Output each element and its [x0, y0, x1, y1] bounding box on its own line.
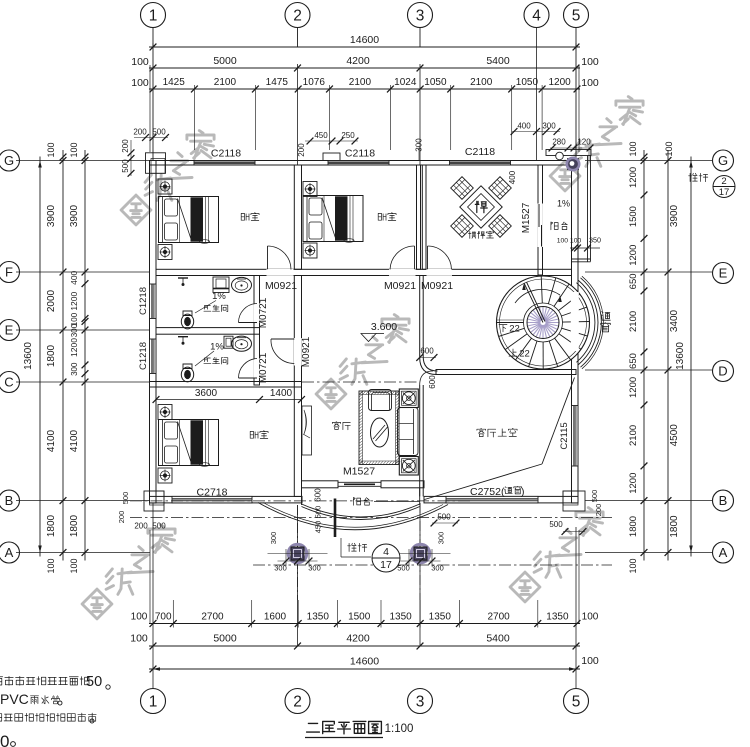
svg-text:500: 500 — [314, 506, 323, 519]
svg-text:100: 100 — [46, 558, 56, 573]
svg-text:1200: 1200 — [628, 167, 639, 188]
svg-text:400: 400 — [508, 170, 517, 184]
svg-text:100: 100 — [581, 655, 599, 667]
svg-text:17: 17 — [719, 187, 730, 198]
bedroom1 label — [241, 213, 249, 220]
svg-text:500: 500 — [549, 520, 563, 529]
svg-text:): ) — [521, 486, 525, 498]
svg-text:C: C — [4, 375, 13, 390]
bathroom2 fixtures — [224, 336, 233, 348]
svg-text:650: 650 — [628, 353, 639, 369]
svg-text:2: 2 — [293, 694, 302, 711]
svg-text:1600: 1600 — [264, 612, 287, 623]
svg-text:C1218: C1218 — [138, 342, 149, 370]
window C2118 chess room — [450, 161, 511, 166]
svg-text:1200: 1200 — [548, 77, 571, 88]
svg-text:1050: 1050 — [516, 77, 539, 88]
right dimension columns — [585, 160, 712, 162]
svg-text:3900: 3900 — [69, 204, 80, 227]
svg-text:1475: 1475 — [266, 77, 289, 88]
svg-text:22: 22 — [519, 349, 530, 360]
svg-text:14600: 14600 — [350, 34, 379, 46]
svg-text:500: 500 — [437, 513, 451, 522]
svg-text:C2718: C2718 — [197, 487, 228, 499]
outer wall left — [150, 161, 157, 504]
top-center chimney bump — [323, 153, 340, 161]
svg-text:4200: 4200 — [346, 55, 370, 67]
svg-text:600: 600 — [314, 488, 323, 502]
top-left corner parapet detail — [146, 153, 166, 174]
svg-text:400: 400 — [517, 122, 531, 131]
living room end tables (square with circle cross) — [399, 389, 418, 408]
svg-text:C2752(: C2752( — [470, 486, 505, 498]
svg-text:100: 100 — [131, 77, 149, 89]
svg-text:1350: 1350 — [546, 612, 569, 623]
svg-text:300: 300 — [431, 564, 444, 573]
interior wall axis F horizontal — [156, 269, 572, 275]
svg-text:500: 500 — [152, 522, 166, 531]
window C2718 bedroom3 — [172, 496, 252, 503]
door M0921 bedroom2 — [389, 269, 416, 276]
svg-text:4: 4 — [532, 8, 541, 25]
bedroom3 label — [250, 431, 258, 438]
svg-text:E: E — [719, 266, 728, 281]
svg-text:C2115: C2115 — [559, 422, 570, 449]
svg-text:3: 3 — [416, 694, 425, 711]
bedroom2 bed with nightstands — [303, 182, 317, 197]
right axis circles G E D B A — [713, 150, 734, 171]
bedroom2 east wall / chess west wall — [417, 165, 421, 269]
svg-text:5000: 5000 — [213, 633, 237, 645]
centerline vertical axis2 below — [297, 505, 299, 600]
svg-text:1%: 1% — [212, 291, 226, 302]
svg-text:PVC: PVC — [0, 691, 29, 707]
top-right balcony parapet — [546, 150, 591, 156]
svg-text:22: 22 — [509, 324, 520, 335]
top axis circles — [141, 3, 166, 28]
svg-text:1350: 1350 — [429, 612, 452, 623]
svg-text:G: G — [4, 153, 14, 168]
bedroom3 north wall — [150, 382, 302, 388]
svg-text:1500: 1500 — [628, 206, 639, 227]
window C1218 bathroom1 — [150, 284, 157, 319]
svg-text:1350: 1350 — [389, 612, 412, 623]
living room label — [332, 422, 340, 430]
svg-text:100: 100 — [69, 142, 79, 157]
svg-text:1500: 1500 — [348, 612, 371, 623]
centerline axis C through living room — [302, 381, 419, 383]
svg-text:200: 200 — [117, 511, 126, 524]
outer wall top (axis G) — [150, 161, 579, 166]
svg-text:A: A — [5, 545, 14, 560]
svg-text:1200: 1200 — [69, 291, 79, 310]
bottom-right corner step — [563, 491, 585, 511]
svg-text:500: 500 — [397, 564, 410, 573]
living void label — [477, 428, 486, 436]
svg-text:300: 300 — [274, 564, 287, 573]
outer wall bottom right portion — [424, 496, 578, 503]
stair south wall (axis D) — [436, 370, 576, 375]
door M1527 chess to balcony (sliding) — [538, 204, 543, 248]
svg-text:1%: 1% — [210, 342, 224, 353]
svg-text:M1527: M1527 — [343, 466, 375, 478]
svg-text:5400: 5400 — [486, 55, 510, 67]
svg-text:14600: 14600 — [350, 656, 379, 668]
svg-text:G: G — [718, 153, 728, 168]
svg-text:2100: 2100 — [628, 311, 639, 332]
svg-text:3900: 3900 — [669, 204, 680, 227]
svg-text:1: 1 — [149, 8, 158, 25]
svg-text:0: 0 — [0, 732, 9, 747]
window C1218 bathroom2 — [150, 339, 157, 374]
svg-text:A: A — [719, 545, 728, 560]
door M0921 bedroom1 (opening in F wall) — [267, 269, 294, 276]
svg-text:M0721: M0721 — [258, 297, 269, 328]
svg-text:C1218: C1218 — [138, 287, 149, 315]
svg-text:100: 100 — [628, 141, 638, 156]
svg-text:3400: 3400 — [669, 309, 680, 332]
svg-text:1800: 1800 — [628, 516, 639, 537]
outer wall right — [572, 161, 579, 504]
svg-text:1024: 1024 — [394, 77, 417, 88]
svg-text:2100: 2100 — [349, 77, 372, 88]
svg-text:2100: 2100 — [470, 77, 493, 88]
svg-text:3: 3 — [416, 8, 425, 25]
svg-text:4100: 4100 — [46, 429, 57, 452]
svg-text:200: 200 — [121, 139, 130, 153]
svg-text:450: 450 — [314, 521, 323, 534]
svg-text:5: 5 — [572, 694, 581, 711]
svg-text:100: 100 — [581, 77, 599, 89]
svg-text:600: 600 — [428, 375, 437, 389]
svg-text:1076: 1076 — [303, 77, 326, 88]
svg-text:C2118: C2118 — [345, 148, 375, 160]
svg-text:2700: 2700 — [487, 612, 510, 623]
centerline lower at posts — [253, 564, 612, 566]
svg-text:5000: 5000 — [213, 55, 237, 67]
door M1527 living to south balcony (threshold) — [339, 481, 381, 483]
svg-text:100: 100 — [131, 612, 148, 623]
svg-text:D: D — [718, 364, 727, 379]
south balcony wall with M1527 opening — [302, 481, 339, 488]
svg-text:1350: 1350 — [307, 612, 330, 623]
void west edge with curved corner — [420, 276, 437, 375]
svg-text:500: 500 — [121, 492, 130, 505]
svg-text:1400: 1400 — [270, 388, 293, 399]
railing label and detail bubble 2/17 top right — [689, 173, 698, 181]
bedroom2 label — [378, 213, 386, 220]
bedroom3 interior dim 3600/1400 — [156, 399, 302, 401]
svg-text:100: 100 — [664, 141, 674, 156]
south balcony label with leader — [353, 498, 360, 506]
centerline axis B through balcony region — [130, 500, 470, 502]
svg-text:3600: 3600 — [195, 388, 218, 399]
svg-text:2100: 2100 — [628, 425, 639, 446]
door M0921 corridor (vertical wall) — [294, 338, 302, 366]
svg-text:B: B — [719, 493, 728, 508]
svg-text:M0921: M0921 — [301, 336, 312, 367]
window C2115 right wall — [572, 406, 579, 467]
svg-text:1800: 1800 — [46, 514, 57, 537]
svg-text:200: 200 — [133, 128, 147, 137]
svg-text:300: 300 — [437, 532, 446, 545]
railing post axis3 (purple) — [411, 544, 429, 562]
svg-text:500: 500 — [152, 128, 166, 137]
svg-text:M1527: M1527 — [521, 202, 532, 233]
outer wall bottom left portion (axis B) — [150, 496, 303, 503]
svg-text:100: 100 — [581, 56, 599, 68]
svg-text:100: 100 — [628, 558, 638, 573]
svg-text:3900: 3900 — [46, 204, 57, 227]
svg-text:400: 400 — [69, 270, 79, 284]
bedroom1 bed with nightstands — [158, 179, 172, 194]
svg-text:650: 650 — [628, 273, 639, 289]
svg-text:200: 200 — [134, 522, 148, 531]
svg-text:M0921: M0921 — [265, 280, 297, 292]
svg-text:1425: 1425 — [163, 77, 186, 88]
svg-text:200: 200 — [297, 143, 306, 157]
svg-text:100: 100 — [582, 612, 599, 623]
south balcony floor and curved edge arcs — [301, 488, 303, 505]
door M0721 bathroom2 — [254, 359, 260, 379]
svg-text:2100: 2100 — [214, 77, 237, 88]
bedroom3 bed with nightstands — [158, 405, 172, 420]
svg-text:2000: 2000 — [46, 289, 57, 312]
svg-text:300: 300 — [308, 564, 321, 573]
bathroom east wall — [254, 276, 260, 386]
svg-text:100: 100 — [131, 56, 149, 68]
living room sofa set with hatched rug — [359, 391, 399, 465]
top dimension rows — [152, 28, 154, 47]
curved through-window east of stair — [571, 292, 579, 351]
svg-text:120: 120 — [577, 138, 591, 147]
svg-text:1800: 1800 — [669, 515, 680, 538]
svg-text:450: 450 — [314, 131, 328, 140]
svg-text:350: 350 — [589, 236, 601, 245]
bathroom divider wall — [156, 328, 260, 335]
svg-text:1: 1 — [149, 694, 158, 711]
svg-text:50: 50 — [86, 674, 102, 690]
svg-text:4100: 4100 — [69, 429, 80, 452]
chess east wall — [538, 165, 543, 275]
interior wall axis2 vertical upper (between bedrooms) — [294, 165, 301, 269]
svg-text:4200: 4200 — [346, 633, 370, 645]
mahjong table chess room — [460, 186, 502, 228]
svg-text:1200: 1200 — [628, 377, 639, 398]
svg-text:17: 17 — [380, 559, 392, 571]
post dimension ticks — [278, 560, 318, 562]
svg-text:M0921: M0921 — [421, 280, 453, 292]
svg-text:200: 200 — [594, 504, 603, 517]
svg-text:M0921: M0921 — [384, 280, 416, 292]
spiral staircase — [497, 276, 590, 369]
svg-text:B: B — [5, 493, 14, 508]
svg-text:100 100: 100 100 — [557, 238, 582, 245]
svg-text:4500: 4500 — [669, 424, 680, 447]
svg-text:1800: 1800 — [69, 514, 80, 537]
svg-text:F: F — [5, 265, 13, 280]
window C2752 living void south — [446, 496, 538, 503]
centerline below building — [130, 517, 612, 519]
window C2118 bedroom1 — [194, 161, 255, 166]
svg-text:300: 300 — [269, 532, 278, 545]
door M0921 chess room — [427, 269, 453, 276]
window C2118 bedroom2 — [328, 161, 389, 166]
svg-text:700: 700 — [155, 612, 172, 623]
watermark 图纸之家 instances — [121, 195, 151, 225]
svg-text:C2118: C2118 — [465, 146, 495, 158]
svg-text:100: 100 — [130, 633, 148, 645]
centerline vertical axis3 below — [419, 503, 421, 600]
railing post axis2 (purple) — [288, 544, 306, 562]
svg-text:5400: 5400 — [486, 633, 510, 645]
bathroom1 fixtures: cabinet basin toilet drain — [213, 277, 229, 293]
svg-text:100: 100 — [69, 558, 79, 573]
svg-text:3.600: 3.600 — [371, 321, 397, 333]
interior wall axis2 vertical lower (corridor/living) — [294, 276, 301, 497]
svg-text:1:100: 1:100 — [385, 723, 414, 735]
corner column with purple ring top right — [568, 159, 579, 170]
svg-text:13600: 13600 — [23, 342, 34, 370]
bottom axis circles — [141, 689, 166, 714]
svg-text:300: 300 — [70, 323, 79, 337]
svg-text:250: 250 — [341, 131, 355, 140]
bottom-left corner step — [144, 491, 164, 511]
svg-text:300: 300 — [542, 122, 556, 131]
svg-text:2: 2 — [293, 8, 302, 25]
svg-text:1050: 1050 — [424, 77, 447, 88]
svg-text:2700: 2700 — [201, 612, 224, 623]
railing label with leader and bubble 4/17 — [348, 543, 357, 551]
TV cabinet on west wall of living room — [302, 406, 312, 455]
svg-text:M0721: M0721 — [258, 352, 269, 383]
svg-text:2: 2 — [721, 176, 726, 187]
rain pipe top right — [556, 152, 564, 160]
living void diagonal lines — [542, 378, 575, 465]
svg-text:C2118: C2118 — [211, 148, 241, 160]
left dimension columns — [16, 160, 150, 162]
left axis circles G F E C B A — [0, 150, 20, 171]
door M0721 bathroom1 — [254, 304, 260, 323]
svg-text:300: 300 — [70, 362, 79, 376]
svg-text:1%: 1% — [557, 199, 570, 209]
svg-text:5: 5 — [572, 8, 581, 25]
svg-text:100: 100 — [46, 142, 56, 157]
svg-text:1200: 1200 — [628, 245, 639, 266]
svg-text:1200: 1200 — [69, 338, 79, 357]
svg-text:1800: 1800 — [46, 344, 57, 367]
title 二层平面图 1:100 — [307, 723, 320, 732]
bottom dimension rows — [149, 623, 580, 625]
svg-text:500: 500 — [590, 490, 599, 503]
svg-text:E: E — [5, 323, 14, 338]
balcony section cut mark — [334, 499, 337, 538]
svg-text:13600: 13600 — [675, 342, 686, 370]
svg-text:1200: 1200 — [628, 473, 639, 494]
svg-text:4: 4 — [383, 546, 389, 558]
